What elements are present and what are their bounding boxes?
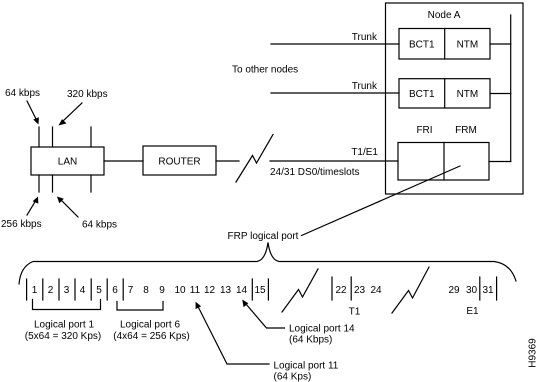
svg-text:64 kbps: 64 kbps: [5, 88, 40, 99]
svg-text:30: 30: [466, 285, 478, 296]
svg-text:Trunk: Trunk: [352, 81, 378, 92]
svg-text:To other nodes: To other nodes: [232, 65, 298, 76]
LAN top port line 3: [90, 127, 92, 147]
svg-text:23: 23: [354, 285, 366, 296]
svg-text:FRI: FRI: [416, 125, 432, 136]
pointer to slot 14: [242, 300, 284, 329]
svg-text:15: 15: [254, 285, 266, 296]
svg-text:LAN: LAN: [58, 157, 77, 168]
svg-text:3: 3: [64, 285, 70, 296]
svg-text:6: 6: [112, 285, 118, 296]
svg-text:12: 12: [204, 285, 216, 296]
svg-text:(4x64 = 256 Kps): (4x64 = 256 Kps): [113, 331, 189, 342]
arrow 256 kbps: [27, 197, 38, 216]
svg-text:BCT1: BCT1: [409, 89, 435, 100]
timeslot tick 0: [26, 279, 28, 300]
wire card U2 to bus: [490, 93, 511, 95]
svg-text:BCT1: BCT1: [409, 40, 435, 51]
svg-text:2: 2: [48, 285, 54, 296]
E1 tick b: [496, 277, 498, 300]
svg-text:Trunk: Trunk: [352, 32, 378, 43]
svg-text:Logical port 14: Logical port 14: [289, 324, 355, 335]
wire break to FRI card (T1/E1 line): [270, 160, 398, 162]
ROUTER box: [143, 146, 216, 175]
arrow 320 kbps: [59, 103, 83, 126]
card U1 BCT1/NTM (upper): [399, 29, 490, 60]
wire card U1 to bus: [490, 43, 511, 45]
svg-text:22: 22: [335, 285, 347, 296]
svg-text:Logical port 1: Logical port 1: [34, 320, 94, 331]
card U2 BCT1/NTM (lower): [399, 79, 490, 108]
LAN bottom port line 3: [90, 175, 92, 192]
timeslot numbers 1-15: [32, 285, 266, 296]
arrow 64 kbps bottom: [57, 197, 78, 218]
timeslot tick 6: [122, 279, 124, 300]
T1 slot numbers 22 23 24: [335, 285, 382, 296]
svg-text:1: 1: [32, 285, 38, 296]
svg-text:(64 Kps): (64 Kps): [274, 372, 312, 382]
svg-text:8: 8: [143, 285, 149, 296]
bracket logical port 6: [117, 302, 163, 311]
LAN top port line 2: [52, 127, 54, 147]
timeslot tick 3: [74, 279, 76, 300]
svg-text:320 kbps: 320 kbps: [67, 89, 108, 100]
svg-text:NTM: NTM: [457, 40, 479, 51]
svg-text:256 kbps: 256 kbps: [1, 219, 42, 230]
trunk wire 1: [271, 43, 399, 45]
Node A outer box: [386, 3, 524, 194]
timeslot tick 15: [267, 279, 269, 300]
FRP logical port pointer line: [302, 166, 461, 236]
node internal bus: [510, 15, 512, 162]
brace over timeslots: [19, 243, 516, 285]
svg-text:24: 24: [370, 285, 382, 296]
svg-text:24/31 DS0/timeslots: 24/31 DS0/timeslots: [270, 167, 360, 178]
svg-text:T1: T1: [349, 307, 361, 318]
timeslot tick 4: [90, 279, 92, 300]
timeslot tick 2: [58, 279, 60, 300]
timeslot tick 5: [106, 279, 108, 300]
svg-text:14: 14: [236, 285, 248, 296]
svg-text:10: 10: [174, 285, 186, 296]
svg-text:E1: E1: [466, 306, 479, 317]
svg-text:4: 4: [80, 285, 86, 296]
break symbol before E1 group: [392, 267, 429, 313]
E1 tick a: [479, 277, 481, 300]
svg-text:H9369: H9369: [528, 338, 539, 368]
bracket logical port 1: [33, 300, 101, 310]
svg-text:FRP logical port: FRP logical port: [228, 231, 299, 242]
svg-text:FRM: FRM: [455, 125, 477, 136]
trunk wire 2: [271, 92, 399, 94]
svg-text:64 kbps: 64 kbps: [82, 220, 117, 231]
svg-text:Logical port 6: Logical port 6: [120, 320, 180, 331]
wire card U3 to bus: [489, 161, 511, 163]
card U3 FRI/FRM: [398, 143, 489, 181]
E1 slot numbers 29 30 31: [448, 285, 494, 296]
svg-text:Logical port 11: Logical port 11: [274, 361, 339, 372]
svg-text:NTM: NTM: [457, 89, 479, 100]
arrow 64 kbps top: [27, 101, 39, 125]
svg-text:31: 31: [482, 285, 494, 296]
LAN bottom port line 1: [38, 175, 40, 192]
svg-text:(5x64 = 320 Kps): (5x64 = 320 Kps): [25, 331, 101, 342]
svg-text:13: 13: [220, 285, 232, 296]
LAN box: [31, 147, 104, 175]
svg-text:9: 9: [159, 285, 165, 296]
timeslot tick 1: [42, 279, 44, 300]
T1 tick b: [350, 277, 352, 300]
LAN top port line 1: [38, 127, 40, 147]
pointer to slot 11: [196, 302, 269, 364]
svg-text:T1/E1: T1/E1: [351, 147, 378, 158]
svg-text:ROUTER: ROUTER: [158, 157, 200, 168]
wire LAN to ROUTER: [104, 160, 143, 162]
timeslot tick 14: [251, 279, 253, 300]
svg-text:Node A: Node A: [428, 10, 461, 21]
svg-text:(64 Kbps): (64 Kbps): [289, 335, 332, 346]
svg-text:11: 11: [190, 285, 201, 296]
line break symbol (WAN link): [236, 135, 273, 183]
svg-text:29: 29: [448, 285, 460, 296]
wire ROUTER to break: [216, 160, 239, 162]
svg-text:7: 7: [128, 285, 134, 296]
svg-text:5: 5: [96, 285, 102, 296]
T1 tick a: [331, 277, 333, 300]
break symbol before T1 group: [282, 269, 318, 312]
LAN bottom port line 2: [52, 175, 54, 192]
